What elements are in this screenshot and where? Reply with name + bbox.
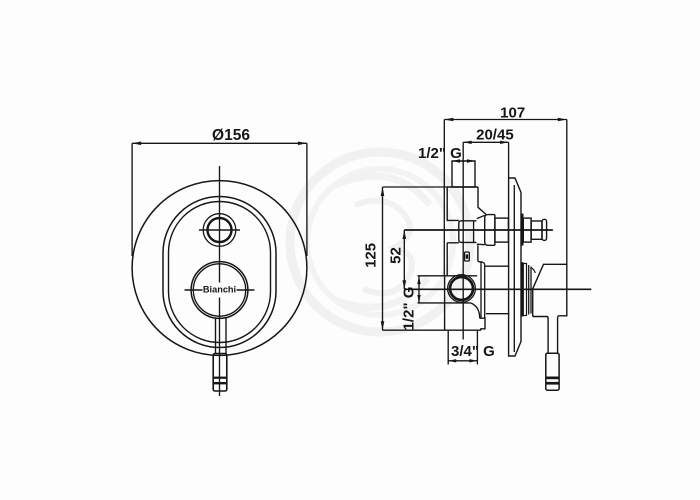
dim 125 bottom tick — [383, 329, 445, 331]
dim 1/2 pipe line — [452, 160, 475, 162]
dim Ø156 left arrow — [132, 142, 141, 146]
handle mount ring 1 — [523, 264, 526, 316]
lever stem right edge — [557, 319, 559, 354]
inlet boss bottom edge — [418, 302, 471, 304]
dim 3/4 right arrow — [469, 359, 477, 362]
svg-text:107: 107 — [500, 104, 525, 121]
dim 125 top tick — [383, 186, 448, 188]
diverter cartridge housing — [459, 221, 477, 243]
dim 1/2 pipe left arrow — [452, 159, 460, 162]
diverter knob crosshair — [199, 229, 240, 231]
front vertical centerline — [219, 166, 221, 283]
dim 3/4 left extension line — [447, 331, 449, 365]
dim 52 top arrow — [403, 230, 407, 239]
handle boss transition curve — [531, 268, 535, 274]
main knob outer circle — [191, 262, 248, 319]
wall plate outline — [509, 178, 521, 356]
lever stem left edge — [547, 319, 549, 354]
diverter taper top — [477, 215, 485, 218]
dim 107 right extension line — [566, 120, 568, 265]
handle grip rib 2 — [213, 382, 227, 384]
dim 125 top arrow — [381, 187, 385, 196]
dim 20/45 line — [463, 141, 508, 143]
watermark logo — [290, 152, 470, 332]
dim 1/2 inlet line — [418, 276, 420, 303]
dim 3/4 right extension line — [476, 331, 478, 365]
pipe centerline vertical — [462, 142, 464, 339]
mounting flange lines — [481, 262, 485, 318]
diverter section left of plate — [495, 218, 509, 242]
dim 107 line — [444, 119, 567, 121]
main knob inner circle — [193, 264, 245, 316]
body bottom edge — [445, 329, 481, 331]
diverter centerline — [404, 229, 553, 231]
inlet boss left face — [444, 276, 446, 303]
svg-text:1/2" G: 1/2" G — [400, 287, 417, 331]
handle grip rib 1 — [213, 377, 227, 379]
svg-text:125: 125 — [362, 243, 379, 268]
diverter knob middle section — [531, 221, 542, 239]
cartridge internal line — [473, 221, 475, 242]
dim 125 line — [382, 187, 384, 330]
dim 52 bottom arrow — [403, 280, 407, 289]
cover oval inner — [169, 202, 271, 343]
diverter large ring — [485, 215, 495, 246]
svg-text:20/45: 20/45 — [476, 126, 514, 143]
diverter knob outer circle — [203, 214, 236, 247]
side inlet outer circle — [448, 275, 476, 303]
diverter section right of plate — [523, 218, 531, 242]
main knob crosshair — [185, 289, 255, 291]
dim 107 right arrow — [558, 118, 567, 122]
escutcheon outer circle — [132, 181, 307, 356]
lever grip rib 2 — [546, 382, 559, 385]
inlet centerline — [404, 288, 591, 290]
handle grip — [213, 354, 227, 392]
svg-text:52: 52 — [387, 247, 404, 264]
handle stem left edge — [215, 318, 217, 354]
Bianchi label background — [203, 283, 237, 296]
cartridge screw detail — [465, 252, 470, 261]
diverter gusset diagonal — [478, 207, 486, 214]
dim 52 line — [403, 230, 405, 289]
dim 107 left arrow — [444, 118, 453, 122]
dim 3/4 line — [448, 360, 477, 362]
dim Ø156 left extension line — [131, 143, 133, 256]
diverter seal bar (black) — [521, 214, 524, 246]
wall plate inner line — [513, 185, 515, 352]
stem housing bottom edge — [486, 313, 510, 315]
cover oval outer — [163, 197, 276, 348]
svg-text:Ø156: Ø156 — [212, 127, 250, 144]
dim 1/2 inlet bottom arrow — [417, 295, 420, 303]
lever grip rib 1 — [546, 377, 559, 380]
svg-text:Bianchi: Bianchi — [203, 285, 236, 295]
handle base block — [533, 264, 567, 318]
side inlet inner circle — [450, 277, 473, 300]
handle mount ring 2 — [528, 265, 530, 315]
handle mount ring 3 — [530, 267, 532, 314]
dim 20/45 left arrow — [463, 141, 472, 144]
lever grip — [546, 353, 559, 390]
stem housing top edge — [485, 265, 509, 267]
valve body outline — [447, 187, 481, 276]
svg-text:3/4" G: 3/4" G — [451, 343, 495, 360]
dim 125 bottom arrow — [381, 321, 385, 330]
dim Ø156 right extension line — [306, 143, 308, 256]
body lower-left edge — [444, 303, 446, 330]
dim Ø156 right arrow — [298, 142, 307, 146]
diverter taper bottom — [477, 243, 485, 246]
svg-text:1/2" G: 1/2" G — [418, 145, 462, 162]
diverter knob end cap — [542, 219, 547, 240]
dim Ø156 line — [132, 142, 307, 144]
dim 107 left extension line — [443, 120, 445, 277]
inlet boss top edge — [418, 275, 478, 277]
dim 1/2 pipe right arrow — [467, 159, 475, 162]
dim 3/4 left arrow — [448, 359, 456, 362]
handle stem right edge — [225, 318, 227, 354]
dim 1/2 inlet top arrow — [417, 276, 420, 284]
dim 20/45 right extension line — [508, 142, 510, 178]
elbow outer arc — [471, 303, 480, 318]
diverter knob inner circle — [208, 218, 232, 242]
elbow step profile — [480, 318, 485, 330]
inlet pipe — [452, 161, 475, 187]
dim 20/45 right arrow — [500, 141, 509, 144]
handle seal bar (black) — [521, 262, 524, 316]
